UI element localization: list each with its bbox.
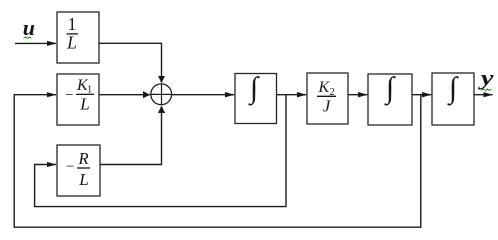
svg-text:∫: ∫: [447, 72, 459, 107]
block -R/L: [57, 145, 100, 196]
svg-text:1: 1: [68, 14, 77, 34]
wire integrator2 to integrator 3 with takeoff node: [412, 94, 431, 96]
block -K1/L: [57, 74, 99, 125]
integrator block 2: [368, 72, 412, 126]
summing junction: [151, 84, 172, 105]
svg-text:∫: ∫: [248, 72, 260, 107]
svg-text:u: u: [23, 15, 35, 40]
wire takeoff after integrator1 down: [285, 95, 287, 207]
svg-text:−: −: [65, 88, 73, 104]
svg-text:J: J: [323, 96, 331, 115]
block K2/J: [307, 73, 348, 124]
spellcheck squiggle under y: [482, 89, 492, 91]
wire takeoff after integrator2 down: [420, 95, 422, 227]
wire summer output to integrator 1: [172, 94, 234, 96]
wire u input arrow: [15, 42, 56, 44]
spellcheck squiggle under u: [24, 37, 32, 39]
wire K2/J to integrator 2: [348, 94, 367, 96]
wire R/L feedback rail: [35, 165, 287, 207]
wire -R/L output to summer bottom: [100, 106, 162, 164]
block 1/L: [57, 12, 99, 63]
svg-text:R: R: [77, 149, 88, 168]
wire output arrow: [474, 94, 493, 96]
svg-text:−: −: [66, 159, 74, 175]
svg-text:∫: ∫: [384, 72, 396, 107]
wire integrator1 to K2/J with takeoff node: [277, 94, 307, 96]
svg-text:L: L: [78, 170, 88, 189]
svg-text:L: L: [66, 32, 77, 52]
wire -K1/L output to summer left: [99, 94, 150, 96]
wire K1/L feedback rail: [14, 95, 421, 228]
wire 1/L output to summer top: [99, 43, 162, 82]
svg-text:L: L: [79, 95, 89, 114]
integrator block 1: [235, 72, 277, 124]
integrator block 3: [432, 72, 474, 126]
